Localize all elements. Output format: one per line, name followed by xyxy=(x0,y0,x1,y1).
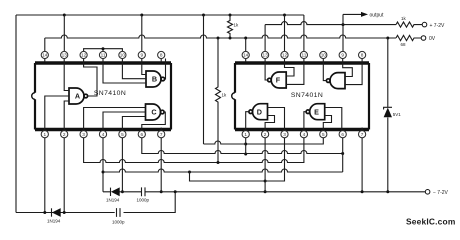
gate B bubble xyxy=(161,77,165,81)
node: junction dot top rail x=284.5 (to right IC pin 12) xyxy=(283,14,286,17)
node: junction dot 0V rail x=245.7 (right IC pin 14 riser) xyxy=(244,37,247,40)
node: junction dot row181 at right IC pin 2 vertical xyxy=(264,180,267,183)
node: junction dot bottom row at pin 1 xyxy=(43,211,46,214)
node: junction dot 0V rail x=218 xyxy=(217,37,220,40)
svg-text:output: output xyxy=(370,12,385,18)
gate D bubble xyxy=(249,110,253,114)
svg-text:D: D xyxy=(257,107,262,116)
zener triangle pointing up xyxy=(384,108,392,118)
svg-text:4: 4 xyxy=(303,132,306,137)
gate F bubble xyxy=(268,78,272,82)
node: junction dot row153.5 at right IC pin 6 vertical xyxy=(341,152,344,155)
wire: gate C input 1 from pin 3 xyxy=(84,108,146,131)
wire: vertical from 0V rail corner down to left IC pin 14 xyxy=(44,38,46,52)
wire: gate F input 2 from pin 11 xyxy=(286,59,304,85)
wire: minus supply rail y=191.8 from corner x=103 to terminal xyxy=(103,191,425,193)
terminal -7.2V open circle xyxy=(425,190,430,195)
pin 10 top right IC xyxy=(320,51,327,58)
node: junction dot minus rail at left IC pin 7 xyxy=(160,190,163,193)
node: junction dot 0V rail x=230 (bottom of first 1k) xyxy=(229,37,232,40)
wire: bottom row y=212.5 from x=16 to riser x=175.2 xyxy=(16,192,175,213)
svg-text:11: 11 xyxy=(301,53,306,58)
wire: left IC pin 4 vertical down through dot to minus rail corner xyxy=(102,138,104,192)
wire: gate D input 1 to pin 3 xyxy=(268,108,285,131)
gate G unlabeled (NAND mirrored) body xyxy=(330,73,345,89)
pin 5 bottom left IC xyxy=(119,131,126,138)
svg-text:− 7-2V: − 7-2V xyxy=(433,190,449,196)
wire: gate B input 3 from pin 11 xyxy=(103,59,146,84)
gate E bubble xyxy=(306,110,310,114)
node: junction dot minus rail at pin 5 xyxy=(121,190,124,193)
gate A (NAND) body xyxy=(69,88,84,104)
wire: gate D output to pin 1 xyxy=(246,112,249,131)
gate G bubble xyxy=(326,79,330,83)
resistor 1k vertical between top rail and 0V rail at x=230 xyxy=(228,15,233,38)
wire: vertical from top rail down to left IC pin 13 (hops 0V rail) xyxy=(63,15,65,52)
wire: vertical from 0V rail down to right IC pin 14 xyxy=(245,38,247,52)
wire: row y=144 from vertical x=203.5 to right IC pin 5, hop at 217.8 xyxy=(204,138,324,144)
wire: left border vertical x=16 down to bottom row xyxy=(15,15,17,213)
wire: gate E output to pin 4 xyxy=(304,112,306,131)
svg-text:E: E xyxy=(314,107,319,116)
wire: left IC pin 2 vertical down to bottom row xyxy=(63,138,65,213)
wire: top supply rail y=15 from left corner to corner above right IC pin 11 xyxy=(16,14,304,16)
pin 14 top left IC xyxy=(41,51,48,58)
svg-text:6: 6 xyxy=(341,132,344,137)
pin 7 bottom left IC xyxy=(158,131,165,138)
wire: gate A input 3 from pin 2 xyxy=(64,101,69,131)
gate E (NAND mirrored) body xyxy=(310,104,325,120)
pin 8 top left IC xyxy=(158,51,165,58)
wire: vertical from output arrow line down through rail to right IC pin 9 xyxy=(342,14,344,51)
gate B (NAND) body xyxy=(146,71,161,87)
svg-text:1000p: 1000p xyxy=(137,198,150,203)
node: junction dot top rail x=230 (1k resistor) xyxy=(229,14,232,17)
resistor 68 horizontal on 0V rail xyxy=(396,35,421,40)
wire: gate G input 1 staircase from pin 9 xyxy=(343,59,353,77)
wire: right IC pin 2 vertical down to minus rail xyxy=(264,138,266,192)
pin 11 top right IC xyxy=(300,51,307,58)
svg-text:13: 13 xyxy=(262,53,268,58)
pin 9 top right IC xyxy=(339,51,346,58)
pin stubs for pins without internal wires xyxy=(45,59,362,131)
svg-text:11: 11 xyxy=(101,53,106,58)
svg-text:1000p: 1000p xyxy=(112,220,125,225)
node: junction dot pin4 vertical at row172 xyxy=(102,171,105,174)
svg-text:7: 7 xyxy=(160,132,163,137)
pin 3 bottom left IC xyxy=(80,131,87,138)
svg-text:0V: 0V xyxy=(429,36,436,42)
svg-text:F: F xyxy=(276,76,281,85)
wire: gate C input 3 from pin 5 xyxy=(122,117,145,131)
svg-text:14: 14 xyxy=(42,53,48,58)
node: junction dot bracket above left pin 11 xyxy=(102,47,105,50)
svg-text:1k: 1k xyxy=(234,23,240,28)
wire: gate G output to pin 10 xyxy=(323,59,326,81)
wire: gate B input 1 from pin 9 xyxy=(142,59,146,75)
wire: vertical from top rail down to left IC pin 9 xyxy=(141,15,143,52)
pin 7 bottom right IC xyxy=(359,131,366,138)
wire: top rail corner down to right IC pin 11 xyxy=(303,15,305,52)
node: junction dot bottom row at pin 2 xyxy=(63,211,66,214)
wire: vertical from top rail to right IC pin 12 xyxy=(284,15,286,52)
wire: left IC pin 1 vertical down to bottom row xyxy=(44,138,46,213)
wire: gate A input 1 from pin 13 xyxy=(64,59,69,91)
wire: output arrow horizontal line xyxy=(343,13,362,15)
svg-text:SN7410N: SN7410N xyxy=(94,90,126,97)
pin 2 bottom left IC xyxy=(61,131,68,138)
svg-text:9: 9 xyxy=(341,53,344,58)
node: junction dot top rail x=203.5 xyxy=(202,14,205,17)
zener diode 5V1 vertical at x=387.8 xyxy=(387,38,389,192)
svg-text:5: 5 xyxy=(322,132,325,137)
svg-text:6: 6 xyxy=(140,132,143,137)
pin 6 bottom right IC xyxy=(339,131,346,138)
node: junction dot top rail x=141.8 xyxy=(140,14,143,17)
wire: left IC pin 7 vertical down to minus rail, dot at rail xyxy=(160,138,162,192)
svg-text:B: B xyxy=(152,75,157,84)
gate D (NAND mirrored) body xyxy=(253,104,268,120)
capacitor C1 1000p on bottom row xyxy=(115,208,124,217)
pin 1 bottom left IC xyxy=(41,131,48,138)
pin 8 top right IC xyxy=(359,51,366,58)
wire: right IC pin 7 vertical down to minus rail xyxy=(361,138,363,192)
svg-text:2: 2 xyxy=(63,132,66,137)
node: junction dot row172 x=189.5 xyxy=(188,171,191,174)
svg-text:12: 12 xyxy=(282,53,288,58)
terminal +7.2V open circle xyxy=(422,22,427,27)
resistor 1k vertical at x=218 from 0V rail down to row y=163 xyxy=(216,38,221,163)
node: junction dot minus rail at right IC pin 2 xyxy=(264,190,267,193)
wire: +7.2V rail y=24.6 from corner above right IC pin 13, with hops at 284.5 and 301.5 xyxy=(265,22,396,25)
svg-text:A: A xyxy=(75,92,80,101)
output arrowhead xyxy=(361,12,368,17)
svg-text:SeekIC.com: SeekIC.com xyxy=(406,217,455,227)
svg-text:10: 10 xyxy=(321,53,327,58)
wire: gate E input 2 hook to pin 5 xyxy=(323,116,331,131)
svg-text:5V1: 5V1 xyxy=(393,112,402,117)
wire: gate C output staircase to pin 6 xyxy=(142,112,166,131)
gate C (NAND) body xyxy=(146,104,161,120)
wire: gate B output to pin 8 xyxy=(164,59,167,80)
pin 11 top left IC xyxy=(99,51,106,58)
svg-text:12: 12 xyxy=(81,53,87,58)
pin 12 top right IC xyxy=(281,51,288,58)
svg-text:3: 3 xyxy=(283,132,286,137)
wire: gate D input 2 hook to pin 2 xyxy=(265,116,274,131)
terminal 0V open circle xyxy=(421,36,426,41)
wire: row y=153.5 from left IC pin 6 to right IC pin 6 vertical, hops at 161.2,218,265.1,284.5,303.9 xyxy=(142,138,343,154)
svg-text:13: 13 xyxy=(62,53,68,58)
pin 9 top left IC xyxy=(138,51,145,58)
svg-text:8: 8 xyxy=(160,53,163,58)
wire: gate F output to pin 13 xyxy=(265,59,268,81)
node: junction dot row144 at right IC pin 1 xyxy=(244,143,247,146)
IC body SN7401N outline xyxy=(235,61,369,65)
wire: gate A output to pin 12 xyxy=(84,59,97,97)
svg-text:9: 9 xyxy=(140,53,143,58)
pin 14 top right IC xyxy=(242,51,249,58)
resistor 1k horizontal on +7.2V rail xyxy=(396,22,422,27)
svg-text:1N194: 1N194 xyxy=(47,219,61,224)
wire: gate E input 1 to pin 6 xyxy=(325,108,342,131)
svg-text:8: 8 xyxy=(361,53,364,58)
pin 10 top left IC xyxy=(119,51,126,58)
svg-text:1k: 1k xyxy=(222,93,228,98)
IC body SN7410N outline xyxy=(35,61,171,65)
pin 4 bottom right IC xyxy=(300,131,307,138)
gate F (NAND mirrored) body xyxy=(271,72,286,88)
pin 13 top right IC xyxy=(262,51,269,58)
svg-text:5: 5 xyxy=(121,132,124,137)
gate A bubble xyxy=(84,94,88,98)
wire: bracket tying left IC pins 12,11,10 at y=48.7 xyxy=(84,49,123,52)
pin 13 top left IC xyxy=(61,51,68,58)
svg-text:4: 4 xyxy=(102,132,105,137)
node: junction dot minus rail at pin 7 xyxy=(361,190,364,193)
node: junction dot top rail x=64.3 xyxy=(63,14,66,17)
wire: 0V rail y=38 from corner above left IC pin 14 with hops at 64.3,141.8,203.5,265.1,284.5,301.5,342.7 xyxy=(45,35,396,38)
wire: gate C input 2 from pin 4 xyxy=(103,112,146,131)
IC notch left edge xyxy=(32,93,35,100)
svg-text:10: 10 xyxy=(120,53,126,58)
wire: right IC pin 6 vertical down to row y=172 xyxy=(342,138,344,172)
svg-text:1: 1 xyxy=(244,132,247,137)
svg-text:7: 7 xyxy=(361,132,364,137)
zener cathode bar with bent tip xyxy=(384,107,392,109)
node: junction dot +7.2V rail x=343 (output / pin 9 tap) xyxy=(342,23,345,26)
diode D2 1N194 pointing left on minus rail xyxy=(110,188,112,196)
svg-text:14: 14 xyxy=(243,53,249,58)
node: junction dot minus rail at riser x=175.2 xyxy=(174,190,177,193)
svg-text:1N194: 1N194 xyxy=(106,198,120,203)
wire: vertical from +7.2V rail corner down to right IC pin 13 xyxy=(264,25,266,52)
pin 6 bottom left IC xyxy=(138,131,145,138)
svg-text:3: 3 xyxy=(82,132,85,137)
svg-text:+ 7-2V: + 7-2V xyxy=(430,23,446,29)
pin 1 bottom right IC xyxy=(242,131,249,138)
svg-text:1k: 1k xyxy=(401,16,407,21)
svg-text:C: C xyxy=(151,108,156,117)
wire: right IC pin 1 vertical down to row y=154 xyxy=(245,138,247,154)
wire: row y=181 from dot at x=189.5 to right IC pin 3, dot at 265.1 xyxy=(190,138,285,181)
pin 5 bottom right IC xyxy=(320,131,327,138)
node: junction dot minus rail at zener xyxy=(386,190,389,193)
node: junction dot row154 at right IC pin1 vertical end xyxy=(244,153,247,156)
node: junction dot row162.5 x=218 xyxy=(217,161,220,164)
pin 4 bottom left IC xyxy=(99,131,106,138)
node: junction dot 0V rail x=387.8 (zener branch) xyxy=(386,37,389,40)
gate C bubble xyxy=(161,110,165,114)
pin 3 bottom right IC xyxy=(281,131,288,138)
pin 2 bottom right IC xyxy=(262,131,269,138)
wire: row y=172 from pin4 dot to right IC pin 6 vertical, hops at 122.4,161.2,265.1,284.5 xyxy=(103,169,343,172)
wire: gate F input 1 staircase from pin 12 xyxy=(285,59,295,77)
pin 12 top left IC xyxy=(80,51,87,58)
wire: vertical x=203.5 from top rail down to row y=144 xyxy=(203,15,205,144)
svg-text:SN7401N: SN7401N xyxy=(291,92,323,99)
svg-text:2: 2 xyxy=(264,132,267,137)
svg-text:68: 68 xyxy=(401,42,407,47)
svg-text:1: 1 xyxy=(43,132,46,137)
wire: gate B input 2 from pin 10 xyxy=(122,59,146,79)
capacitor C2 1000p on minus rail xyxy=(142,187,146,196)
wire: row y=162.5 from left IC pin 3 to right IC pin 4, hops at 103,122.4,161.2,265.1,284.5 xyxy=(84,138,304,163)
wire: left IC pin 5 vertical down to minus rail xyxy=(121,138,123,192)
wire: gate A input 2 from pin 1 xyxy=(45,96,69,131)
wire: gate G input 2 from pin 8 xyxy=(345,59,362,85)
diode D1 1N194 pointing left on bottom row xyxy=(51,208,53,216)
IC notch left edge xyxy=(232,93,235,100)
